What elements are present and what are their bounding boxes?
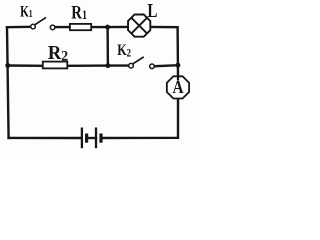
switch K2	[129, 57, 155, 69]
resistor R1	[70, 24, 91, 30]
svg-text:R2: R2	[48, 42, 68, 64]
wire node C down to ammeter	[177, 65, 180, 77]
svg-text:R1: R1	[71, 2, 87, 23]
wire K2 to node C	[154, 65, 178, 66]
ammeter A	[167, 76, 189, 98]
wire lamp L to top-right corner and down to node C	[150, 27, 178, 65]
node A junction dot	[105, 25, 110, 30]
svg-text:L: L	[147, 0, 157, 22]
wire K1 to R1	[55, 26, 70, 28]
switch K1	[31, 17, 55, 29]
node B junction dot	[105, 63, 110, 68]
battery plate short 1	[85, 134, 88, 143]
wire node A to lamp L	[108, 26, 129, 29]
wire R2 to node B	[67, 64, 108, 67]
battery plate short 2	[99, 134, 102, 143]
node left junction dot	[5, 63, 10, 68]
wire ammeter to bottom-right corner and to battery	[102, 98, 178, 138]
wire between battery cells	[87, 137, 96, 139]
lamp L	[128, 15, 150, 37]
wire top-left corner to switch K1	[7, 26, 31, 29]
wire bottom-left corner to battery	[9, 137, 81, 140]
wire R1 to node A	[91, 26, 108, 28]
battery plate long 1	[81, 128, 83, 149]
svg-text:K1: K1	[20, 2, 33, 20]
wire node B to switch K2	[108, 64, 129, 66]
svg-text:A: A	[172, 77, 183, 97]
wire left vertical	[7, 27, 9, 138]
wire left junction to resistor R2	[8, 64, 43, 67]
wire vertical node A to node B	[106, 27, 109, 66]
svg-text:K2: K2	[117, 41, 131, 59]
resistor R2	[43, 62, 68, 69]
battery plate long 2	[95, 128, 97, 149]
node C junction dot	[175, 63, 180, 68]
